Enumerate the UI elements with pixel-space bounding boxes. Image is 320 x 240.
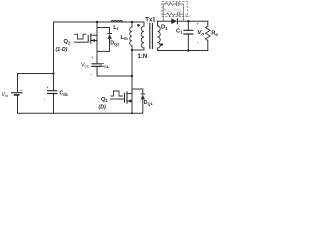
svg-text:RCL2: RCL2 xyxy=(164,8,172,13)
wire: input top line xyxy=(18,73,54,75)
capacitor Cdc bottom lead xyxy=(53,94,55,113)
snubber capacitor row1 xyxy=(177,2,179,6)
wire: output bottom rail xyxy=(158,50,208,52)
transistor Q1 xyxy=(131,89,133,113)
svg-text:-: - xyxy=(91,72,93,78)
inductor Lm xyxy=(131,22,133,27)
resistor Ro xyxy=(207,21,209,26)
snubber branch row1 wires xyxy=(163,3,183,5)
snubber left stub xyxy=(162,4,164,21)
wire: top rail left of Lr xyxy=(54,21,145,23)
node: C1 bottom xyxy=(187,49,189,51)
svg-text:+: + xyxy=(20,88,23,93)
diode DQ1 xyxy=(141,93,145,95)
svg-text:+: + xyxy=(91,55,94,60)
source Vin leads xyxy=(17,74,19,114)
snubber dashed box xyxy=(162,1,188,16)
svg-text:Tx1: Tx1 xyxy=(145,18,156,24)
svg-text:(1-D): (1-D) xyxy=(56,47,68,53)
node: Lm tap on rail xyxy=(131,21,133,23)
diode DQ2 branch xyxy=(97,28,110,52)
svg-text:Vo: Vo xyxy=(198,30,205,36)
svg-text:Q2: Q2 xyxy=(64,39,72,45)
capacitor CCL leads xyxy=(96,51,98,76)
transistor Q2 xyxy=(96,22,98,51)
svg-text:-: - xyxy=(197,40,199,46)
node: clamp return on switch node xyxy=(131,75,133,77)
svg-text:(D): (D) xyxy=(99,105,106,111)
capacitor Cdc plates xyxy=(47,91,58,94)
snubber resistor row1 xyxy=(166,3,174,6)
diode D1 xyxy=(171,18,177,24)
node: secondary polarity dot xyxy=(160,43,163,46)
transformer Tx1 secondary xyxy=(158,26,161,48)
wire: switch node vertical xyxy=(131,45,133,89)
svg-text:Ro: Ro xyxy=(211,31,218,37)
node: input tee xyxy=(52,72,54,74)
wire: left riser into Cdc xyxy=(53,22,55,90)
svg-text:Q1: Q1 xyxy=(101,97,109,103)
gate pulse glyph Q1 xyxy=(111,91,124,96)
node: primary polarity dot xyxy=(137,24,140,27)
svg-text:Vin: Vin xyxy=(2,92,9,98)
wire: ground bottom rail xyxy=(18,112,133,114)
svg-text:Lr: Lr xyxy=(113,25,119,31)
snubber branch row2 wires xyxy=(163,13,183,15)
diode DQ2 xyxy=(107,33,112,35)
svg-text:C1: C1 xyxy=(176,28,183,34)
capacitor CCL plates xyxy=(92,64,102,67)
svg-text:DQ2: DQ2 xyxy=(110,40,120,46)
wire: diode to output xyxy=(178,20,208,22)
capacitor C1 plates xyxy=(183,30,193,34)
svg-text:Lm: Lm xyxy=(121,35,129,41)
node: clamp tap on rail xyxy=(96,21,98,23)
svg-text:CCL2: CCL2 xyxy=(174,8,182,13)
svg-text:+: + xyxy=(46,85,49,90)
node: primary bottom on switch node xyxy=(131,49,133,51)
wire: clamp return xyxy=(97,75,132,77)
svg-text:Cdc: Cdc xyxy=(59,91,68,97)
capacitor C1 leads xyxy=(187,21,189,50)
snubber right stub xyxy=(183,4,185,21)
snubber capacitor row2 xyxy=(178,12,180,16)
svg-text:DQ1: DQ1 xyxy=(144,100,154,106)
svg-text:+: + xyxy=(196,22,199,27)
node: C1 top xyxy=(187,20,189,22)
transformer core xyxy=(150,23,153,49)
wire: secondary top to diode xyxy=(158,20,172,22)
snubber resistor row2 xyxy=(167,13,175,16)
node: Q1 source on ground xyxy=(131,112,133,114)
diode DQ1 branch xyxy=(132,89,143,113)
transformer Tx1 primary xyxy=(143,22,145,26)
svg-text:D1: D1 xyxy=(161,25,168,31)
svg-text:VCL: VCL xyxy=(81,63,89,69)
battery Vin plates xyxy=(11,92,23,94)
svg-text:1:N: 1:N xyxy=(138,54,148,60)
svg-text:CCL: CCL xyxy=(101,63,111,69)
gate pulse glyph Q2 (inverted) xyxy=(74,34,87,39)
inductor Lr (on top rail) xyxy=(111,20,122,22)
